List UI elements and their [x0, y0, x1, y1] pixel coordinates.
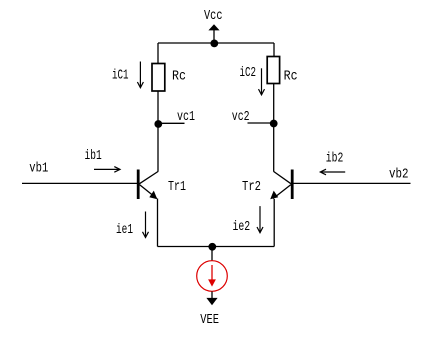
- svg-text:ib2: ib2: [326, 151, 344, 167]
- svg-text:ie1: ie1: [116, 222, 133, 238]
- wire left resistor to collector: [157, 91, 159, 172]
- wire right collector drop: [273, 43, 275, 57]
- svg-text:vc1: vc1: [177, 109, 195, 125]
- wire left collector drop: [157, 43, 159, 64]
- resistor Rc left: [152, 64, 165, 92]
- svg-text:Tr2: Tr2: [242, 179, 261, 195]
- svg-text:iC1: iC1: [112, 68, 129, 84]
- current arrow ib1: [85, 148, 121, 172]
- svg-text:vb1: vb1: [29, 161, 48, 177]
- power Vcc: [204, 8, 223, 43]
- wire right resistor to collector: [273, 84, 275, 172]
- svg-text:vc2: vc2: [232, 109, 250, 125]
- wire vb2 input: [294, 182, 411, 184]
- wire right emitter drop: [273, 199, 275, 247]
- node vc1: [154, 109, 195, 128]
- svg-text:Rc: Rc: [284, 68, 298, 84]
- current arrow ib2: [320, 151, 345, 175]
- resistor Rc right: [267, 57, 279, 84]
- node vc2: [232, 109, 278, 127]
- svg-text:Rc: Rc: [172, 68, 186, 84]
- current arrow ie2: [233, 206, 264, 235]
- wire top rail: [158, 42, 274, 44]
- transistor Tr2: [270, 170, 292, 200]
- wire bottom rail: [158, 246, 275, 248]
- current source I0: [197, 261, 228, 292]
- svg-text:ie2: ie2: [233, 219, 251, 235]
- svg-text:Vcc: Vcc: [204, 8, 223, 24]
- wire vb1 input: [22, 182, 137, 184]
- node emitter junction: [208, 243, 216, 251]
- wire junction to current source: [211, 247, 213, 261]
- node Vcc junction: [210, 40, 218, 48]
- current arrow ie1: [116, 212, 149, 238]
- svg-text:VEE: VEE: [200, 312, 219, 328]
- transistor Tr1: [138, 170, 158, 200]
- power VEE: [200, 292, 219, 328]
- current arrow iC2: [240, 65, 265, 95]
- svg-text:iC2: iC2: [240, 65, 257, 81]
- svg-text:vb2: vb2: [389, 167, 409, 183]
- svg-text:Tr1: Tr1: [168, 179, 186, 195]
- current arrow iC1: [112, 62, 143, 88]
- svg-text:ib1: ib1: [85, 148, 102, 164]
- wire left emitter drop: [157, 199, 159, 247]
